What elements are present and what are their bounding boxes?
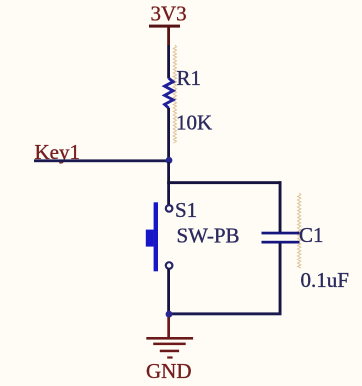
capacitor C1 bottom plate — [262, 241, 300, 244]
junction node B — [166, 311, 173, 318]
wire: resistor to junction — [167, 108, 170, 162]
switch S1 bottom terminal — [166, 262, 173, 269]
wire Key1 horizontal — [34, 159, 169, 162]
switch actuator bar — [154, 202, 158, 271]
wire: switch to bottom junction — [167, 268, 170, 314]
svg-text:SW-PB: SW-PB — [177, 224, 240, 248]
power pin wire (maroon) — [167, 26, 170, 45]
svg-text:GND: GND — [146, 359, 192, 383]
wire: power to resistor — [167, 45, 170, 79]
ground pin wire (maroon) — [167, 314, 170, 338]
svg-text:3V3: 3V3 — [151, 2, 187, 26]
resistor R1 — [165, 78, 174, 108]
artifact zigzag along C1 — [298, 193, 301, 268]
wire: junction down to switch — [167, 162, 170, 205]
wire: bottom horizontal — [167, 312, 281, 315]
artifact zigzag along VCC wire — [173, 45, 176, 143]
switch button cap — [146, 230, 154, 247]
capacitor C1 top plate — [262, 232, 300, 235]
wire: C1 branch vertical upper — [279, 181, 282, 232]
ground symbol — [146, 337, 193, 359]
svg-text:C1: C1 — [299, 223, 324, 247]
svg-text:R1: R1 — [177, 66, 202, 90]
svg-text:10K: 10K — [176, 111, 212, 135]
wire: C1 branch vertical lower — [279, 244, 282, 316]
junction node A — [166, 157, 173, 164]
svg-text:0.1uF: 0.1uF — [301, 268, 349, 292]
switch S1 top terminal — [166, 205, 173, 212]
wire: branch horizontal top to C1 — [167, 181, 281, 184]
svg-text:S1: S1 — [175, 198, 197, 222]
power bar symbol — [149, 25, 180, 28]
